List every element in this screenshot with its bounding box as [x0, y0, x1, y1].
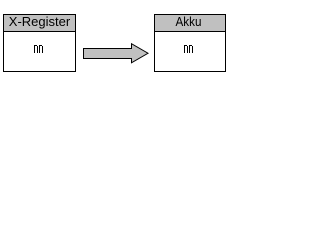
value nn in X-Register [34, 45, 43, 53]
value nn in Akku [184, 45, 193, 53]
header Akku [155, 15, 225, 32]
register box Akku [154, 14, 226, 72]
register box X-Register [3, 14, 76, 72]
header X-Register [4, 15, 75, 32]
arrow X-Register to Akku [0, 0, 231, 91]
